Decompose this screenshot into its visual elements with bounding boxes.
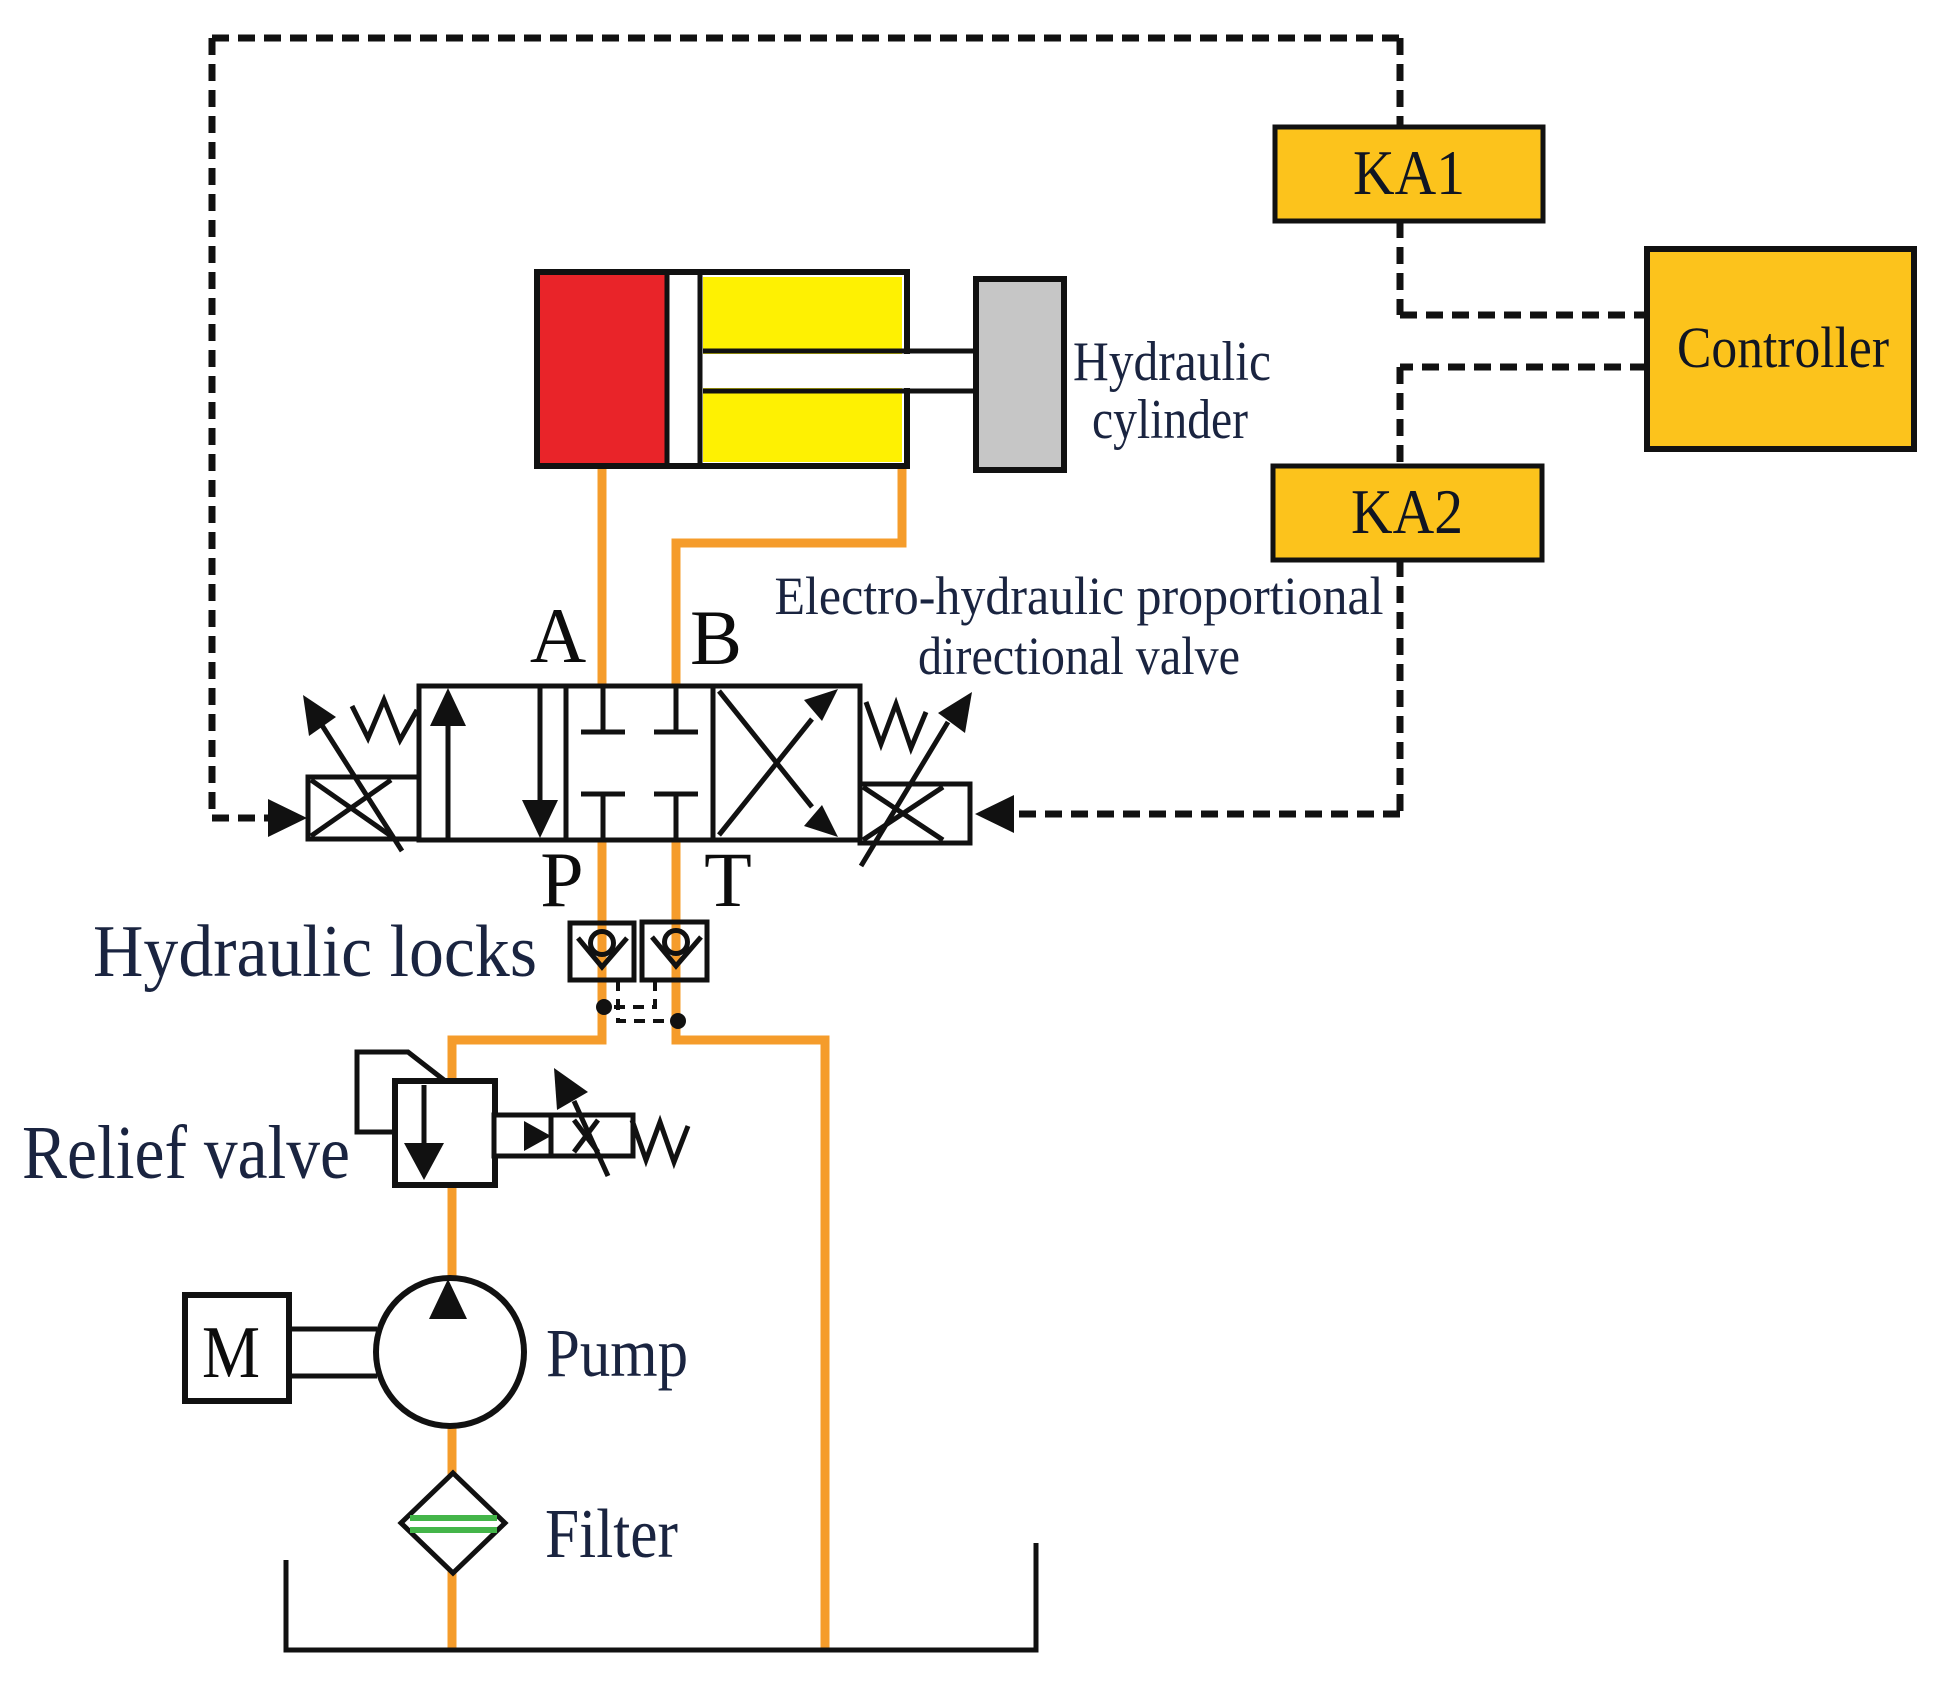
motor M box — [185, 1295, 289, 1401]
wire: orange tank return line T (valve port T through lock to tank) — [676, 836, 825, 1650]
hydraulic lock: right pilot-operated check valve — [642, 922, 707, 980]
controller box — [1647, 249, 1914, 449]
svg-text:cylinder: cylinder — [1092, 389, 1248, 451]
wire: orange hydraulic line A (cylinder cap side to valve port A) — [598, 463, 607, 690]
right solenoid spring — [866, 702, 926, 748]
filter diamond — [401, 1473, 505, 1573]
svg-text:Filter: Filter — [545, 1496, 678, 1573]
relief valve: internal down arrow — [404, 1085, 444, 1180]
valve center position: blocked port B — [654, 686, 698, 732]
wire: dashed control line Controller to KA2 — [1400, 364, 1647, 371]
valve center position: blocked port P — [581, 794, 625, 840]
svg-text:Pump: Pump — [546, 1315, 688, 1391]
arrowhead into left solenoid — [268, 799, 307, 837]
relay KA1 — [1275, 127, 1543, 221]
relief valve: adjustment arrow — [554, 1068, 608, 1176]
filter green element lines — [410, 1518, 497, 1530]
label: Electro-hydraulic proportional directional valve — [775, 566, 1384, 686]
valve left position: down arrow — [522, 688, 558, 838]
pilot line from P to right lock — [604, 980, 655, 1007]
valve center position: blocked port A — [581, 686, 625, 732]
hydraulic lock: left pilot-operated check valve — [570, 923, 634, 980]
svg-text:Controller: Controller — [1677, 315, 1889, 380]
label: Hydraulic cylinder — [1073, 331, 1271, 451]
wire: orange pressure line P (valve port P through lock, relief valve, pump, filter to tank) — [452, 836, 602, 1652]
pump circle — [376, 1278, 524, 1426]
right proportional solenoid box — [860, 784, 970, 843]
relief valve: main body square — [395, 1081, 495, 1185]
right solenoid adjustment arrow — [861, 692, 972, 866]
hydraulic cylinder — [537, 272, 1064, 470]
wire: orange hydraulic line B (cylinder rod side to valve port B) — [676, 463, 902, 690]
valve left position: up arrow — [430, 688, 466, 838]
valve right position: crossed arrow 1 — [719, 689, 838, 835]
relief valve: pilot flow triangle — [524, 1121, 551, 1151]
svg-text:Electro-hydraulic proportional: Electro-hydraulic proportional — [775, 566, 1384, 626]
svg-text:KA2: KA2 — [1351, 476, 1463, 547]
left solenoid adjustment arrow — [303, 695, 402, 851]
arrowhead into right solenoid — [975, 795, 1014, 833]
directional valve U1: body — [419, 686, 860, 840]
svg-text:P: P — [540, 836, 583, 923]
left solenoid spring — [352, 700, 417, 740]
svg-text:Relief valve: Relief valve — [22, 1111, 350, 1195]
svg-text:B: B — [690, 594, 742, 681]
svg-text:Hydraulic: Hydraulic — [1073, 331, 1271, 393]
tank — [286, 1543, 1036, 1650]
motor shaft — [289, 1329, 377, 1376]
valve center position: blocked port T — [654, 794, 698, 840]
relief valve: spring — [632, 1120, 688, 1162]
relay KA2 — [1273, 466, 1542, 560]
wire: dashed control line KA1 top — [1397, 38, 1404, 127]
left proportional solenoid box — [308, 777, 419, 839]
svg-text:M: M — [202, 1312, 260, 1394]
wire: dashed control line KA2 to right solenoid — [1397, 560, 1404, 814]
relief valve: stepped outer outline — [357, 1052, 444, 1132]
svg-text:directional valve: directional valve — [918, 626, 1240, 686]
wire: dashed control line from left solenoid loop (top horizontal + left vertical) — [212, 35, 1400, 42]
svg-text:Hydraulic locks: Hydraulic locks — [93, 911, 537, 993]
pilot junction node on T line — [670, 1013, 686, 1029]
svg-text:T: T — [704, 836, 752, 923]
wire: dashed control line KA1 to Controller — [1397, 221, 1404, 315]
valve right position: crossed arrow 2 — [719, 691, 838, 837]
pilot line from T to left lock — [618, 980, 678, 1021]
relief valve: pilot section — [494, 1115, 633, 1156]
svg-text:A: A — [530, 592, 586, 679]
pilot junction node on P line — [596, 999, 612, 1015]
pump flow triangle — [429, 1279, 467, 1319]
svg-text:KA1: KA1 — [1353, 137, 1465, 208]
